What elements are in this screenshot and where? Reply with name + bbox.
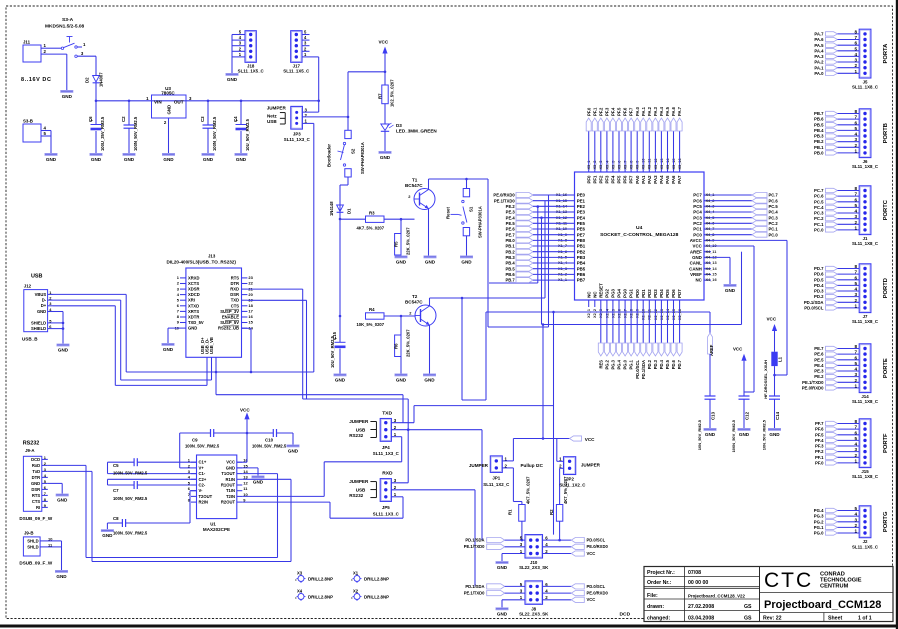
svg-text:PF5: PF5 [617, 175, 622, 184]
svg-text:Netz: Netz [267, 113, 277, 118]
svg-text:PC3: PC3 [693, 215, 702, 220]
svg-text:PD.4: PD.4 [659, 359, 664, 369]
svg-text:7805C: 7805C [161, 91, 175, 96]
svg-text:C1+: C1+ [199, 460, 207, 465]
svg-text:JP5: JP5 [382, 505, 390, 510]
svg-text:L1: L1 [778, 356, 783, 362]
svg-text:PA.5: PA.5 [814, 43, 824, 48]
svg-text:X2: X2 [353, 588, 359, 593]
svg-text:GND: GND [188, 326, 197, 331]
svg-text:PF.7: PF.7 [815, 421, 824, 426]
svg-text:NC: NC [592, 291, 597, 298]
svg-text:XTXD: XTXD [188, 303, 199, 308]
svg-text:T1OUT: T1OUT [221, 471, 235, 476]
svg-text:1N4007: 1N4007 [99, 72, 104, 87]
svg-text:ENABLE: ENABLE [222, 315, 239, 320]
svg-text:C6: C6 [88, 116, 93, 122]
svg-text:PG.3: PG.3 [814, 514, 824, 519]
svg-text:PD.2: PD.2 [647, 359, 652, 369]
svg-text:AVCC: AVCC [690, 238, 703, 243]
svg-text:VIN: VIN [154, 99, 162, 104]
svg-text:PC.2: PC.2 [814, 216, 824, 221]
svg-text:CANH: CANH [689, 266, 702, 271]
svg-text:USB: USB [356, 488, 366, 493]
svg-text:100N_50V_RM2.5: 100N_50V_RM2.5 [731, 419, 736, 452]
svg-text:100N_50V_RM2.5: 100N_50V_RM2.5 [252, 444, 287, 449]
svg-text:R4: R4 [369, 307, 375, 312]
svg-text:PD6: PD6 [671, 289, 676, 298]
svg-text:PORTE: PORTE [883, 358, 889, 378]
svg-text:PA7: PA7 [677, 175, 682, 184]
svg-text:PF2: PF2 [598, 175, 603, 184]
svg-text:X2_2: X2_2 [593, 309, 597, 318]
svg-text:PC.4: PC.4 [814, 205, 824, 210]
svg-text:Projectboard_CCM128: Projectboard_CCM128 [764, 599, 881, 611]
svg-text:PE.2: PE.2 [506, 204, 516, 209]
svg-text:PB5: PB5 [577, 266, 586, 271]
svg-text:PD0: PD0 [635, 289, 640, 298]
svg-text:Sheet: Sheet [828, 616, 842, 622]
svg-text:JUMPER: JUMPER [267, 106, 287, 111]
svg-text:PG.2: PG.2 [814, 519, 824, 524]
svg-text:PB7: PB7 [577, 278, 586, 283]
svg-text:PA2: PA2 [647, 175, 652, 184]
svg-text:C2-: C2- [199, 483, 206, 488]
svg-text:R7: R7 [378, 93, 383, 99]
svg-text:S1: S1 [469, 206, 474, 212]
svg-text:PE.6: PE.6 [814, 352, 824, 357]
svg-text:SHLD: SHLD [27, 544, 38, 549]
svg-text:PF1: PF1 [592, 175, 597, 184]
svg-text:PB.3: PB.3 [814, 134, 824, 139]
svg-text:PC.0: PC.0 [769, 232, 779, 237]
svg-text:PE5: PE5 [577, 221, 586, 226]
svg-text:RESET: RESET [598, 283, 603, 298]
svg-text:100N_50V_RM2.5: 100N_50V_RM2.5 [113, 471, 148, 476]
svg-text:D-: D- [42, 298, 47, 303]
svg-text:4K7_5%_0207: 4K7_5%_0207 [525, 476, 530, 504]
svg-text:CANL: CANL [690, 261, 702, 266]
svg-text:GND: GND [163, 157, 174, 162]
svg-text:GND: GND [288, 449, 299, 454]
svg-text:PB2: PB2 [577, 249, 586, 254]
svg-text:XDSR: XDSR [188, 287, 200, 292]
svg-text:D2: D2 [85, 77, 90, 83]
svg-text:PE.7: PE.7 [506, 232, 516, 237]
svg-text:100N_50V_RM2.5: 100N_50V_RM2.5 [113, 531, 148, 536]
svg-text:PC.1: PC.1 [769, 227, 779, 232]
svg-text:VBUS: VBUS [35, 292, 47, 297]
svg-text:GND: GND [124, 157, 135, 162]
svg-text:USB: USB [267, 119, 277, 124]
svg-text:NC: NC [586, 291, 591, 298]
svg-text:PD.2: PD.2 [814, 294, 824, 299]
svg-text:PG.4: PG.4 [617, 359, 622, 369]
svg-text:PORTB: PORTB [883, 123, 889, 143]
svg-text:VCC: VCC [587, 597, 596, 602]
svg-text:CTS: CTS [32, 499, 41, 504]
svg-text:PD7: PD7 [677, 289, 682, 298]
svg-text:GND: GND [91, 157, 102, 162]
svg-text:PE.3: PE.3 [506, 210, 516, 215]
svg-text:PG2: PG2 [605, 288, 610, 297]
svg-text:PC.4: PC.4 [769, 210, 779, 215]
svg-text:VCC: VCC [379, 40, 389, 45]
svg-text:DCD: DCD [31, 457, 40, 462]
svg-text:X4_11: X4_11 [706, 250, 718, 254]
svg-text:MKDSN1.5/2-5.08: MKDSN1.5/2-5.08 [45, 24, 85, 30]
svg-text:PA.7: PA.7 [677, 106, 682, 116]
svg-text:OUT: OUT [174, 99, 184, 104]
svg-text:J2: J2 [863, 539, 868, 544]
svg-text:PE1: PE1 [577, 198, 586, 203]
svg-text:SOCKET_C-CONTROL_MEGA128: SOCKET_C-CONTROL_MEGA128 [600, 232, 679, 238]
svg-text:X2_1: X2_1 [587, 308, 591, 318]
svg-text:PA5: PA5 [665, 175, 670, 184]
svg-text:D3: D3 [396, 123, 402, 128]
svg-text:PA.4: PA.4 [814, 48, 824, 53]
svg-text:PD.0/SCL: PD.0/SCL [587, 584, 606, 589]
svg-text:JUMPER: JUMPER [469, 463, 489, 468]
svg-text:100U_35V_RM3.5: 100U_35V_RM3.5 [100, 116, 105, 151]
svg-text:HF-DROSSEL_XXUH: HF-DROSSEL_XXUH [763, 360, 768, 399]
svg-text:GND: GND [102, 533, 113, 538]
svg-text:TxD: TxD [32, 469, 40, 474]
svg-text:Reset: Reset [446, 207, 451, 219]
svg-text:AREF: AREF [690, 249, 702, 254]
svg-text:XCTS: XCTS [188, 281, 199, 286]
svg-text:C14: C14 [775, 411, 780, 420]
svg-text:JP3: JP3 [293, 132, 301, 137]
svg-text:SL11_1X3_C: SL11_1X3_C [373, 451, 400, 456]
svg-text:PF.3: PF.3 [605, 107, 610, 116]
svg-text:PF.6: PF.6 [623, 107, 628, 116]
svg-text:GND: GND [37, 309, 46, 314]
svg-text:GND: GND [62, 94, 73, 99]
svg-text:10K_5%_0207: 10K_5%_0207 [357, 322, 385, 327]
svg-text:DRILL2.8NP: DRILL2.8NP [364, 577, 389, 582]
svg-text:PE.0/RXD0: PE.0/RXD0 [587, 544, 609, 549]
svg-text:R2OUT: R2OUT [221, 500, 236, 505]
svg-text:T2IN: T2IN [226, 494, 235, 499]
svg-text:RS232_UB: RS232_UB [218, 326, 239, 331]
svg-text:PD.6: PD.6 [814, 272, 824, 277]
svg-text:GND: GND [497, 611, 508, 616]
svg-text:PB.7: PB.7 [505, 278, 515, 283]
svg-text:VCC: VCC [767, 317, 777, 322]
svg-text:CTC: CTC [764, 569, 813, 592]
svg-text:PG0: PG0 [623, 288, 628, 297]
svg-text:PF.7: PF.7 [629, 107, 634, 116]
svg-text:J9-B: J9-B [24, 531, 33, 536]
svg-text:X4_16: X4_16 [706, 278, 717, 282]
svg-text:C12: C12 [745, 411, 750, 420]
svg-text:DRILL2.8NP: DRILL2.8NP [308, 577, 333, 582]
svg-text:PF4: PF4 [611, 175, 616, 184]
svg-text:PD.1/SDA: PD.1/SDA [465, 584, 484, 589]
svg-text:PB.5: PB.5 [505, 266, 515, 271]
svg-text:PD3: PD3 [653, 289, 658, 298]
svg-text:PE.0/RXD0: PE.0/RXD0 [587, 591, 609, 596]
svg-text:JUMPER: JUMPER [581, 463, 601, 468]
svg-text:RS232: RS232 [349, 433, 363, 438]
svg-text:SUSP_5V: SUSP_5V [220, 320, 239, 325]
svg-text:PE.4: PE.4 [506, 215, 516, 220]
svg-text:PD.1/SDA: PD.1/SDA [804, 300, 824, 305]
svg-text:PE.4: PE.4 [814, 363, 824, 368]
svg-text:VCC: VCC [226, 460, 235, 465]
svg-text:PE.1/TXD0: PE.1/TXD0 [464, 544, 485, 549]
svg-text:100N_50V_RM2.5: 100N_50V_RM2.5 [133, 116, 138, 151]
svg-text:27.02.2008: 27.02.2008 [688, 604, 714, 610]
svg-text:Rev: 22: Rev: 22 [763, 616, 782, 622]
svg-text:PC7: PC7 [693, 193, 702, 198]
svg-text:PG.0: PG.0 [814, 531, 824, 536]
svg-text:J9-A: J9-A [25, 448, 35, 453]
svg-text:GND: GND [461, 260, 472, 265]
svg-text:PD.5: PD.5 [814, 277, 824, 282]
svg-text:4K7_5%_0207: 4K7_5%_0207 [563, 476, 568, 504]
svg-text:PF.6: PF.6 [815, 427, 824, 432]
svg-text:PE7: PE7 [577, 232, 586, 237]
svg-text:PB.1: PB.1 [814, 145, 824, 150]
svg-text:SL11_1X3_C: SL11_1X3_C [284, 137, 311, 142]
svg-text:PC.5: PC.5 [814, 199, 824, 204]
svg-text:GND: GND [56, 574, 67, 579]
svg-text:PD1: PD1 [641, 289, 646, 298]
svg-text:DTR: DTR [32, 475, 41, 480]
svg-text:PC.6: PC.6 [769, 198, 779, 203]
svg-text:PD.3: PD.3 [814, 289, 824, 294]
svg-text:DSUB_09_F_W: DSUB_09_F_W [19, 516, 52, 521]
svg-text:PORTF: PORTF [883, 433, 889, 453]
svg-text:JUMPER: JUMPER [349, 419, 369, 424]
svg-text:PA.4: PA.4 [659, 106, 664, 116]
svg-text:T2: T2 [412, 294, 418, 299]
svg-text:PC.1: PC.1 [814, 222, 824, 227]
svg-text:Projectboard_CCM128_V22: Projectboard_CCM128_V22 [688, 593, 745, 598]
svg-text:PG.3: PG.3 [611, 359, 616, 369]
svg-text:PA.6: PA.6 [671, 106, 676, 116]
svg-text:PC.5: PC.5 [769, 204, 779, 209]
svg-text:PA.3: PA.3 [653, 106, 658, 116]
svg-text:PB1: PB1 [577, 244, 586, 249]
svg-text:SW-PHAP8301A: SW-PHAP8301A [360, 142, 365, 174]
svg-text:PG.1: PG.1 [629, 359, 634, 369]
svg-text:8..16V DC: 8..16V DC [21, 77, 52, 83]
svg-text:JUMPER: JUMPER [349, 479, 369, 484]
svg-text:PC6: PC6 [693, 198, 702, 203]
svg-text:R1IN: R1IN [226, 477, 235, 482]
svg-text:C10: C10 [265, 438, 274, 443]
svg-text:PE.1/TXD0: PE.1/TXD0 [494, 198, 515, 203]
svg-text:X4_15: X4_15 [706, 273, 718, 277]
svg-text:VCC: VCC [693, 244, 703, 249]
svg-text:PB.6: PB.6 [505, 272, 515, 277]
svg-text:PD.1/SDA: PD.1/SDA [641, 360, 646, 379]
svg-text:J11: J11 [23, 40, 31, 45]
svg-text:CENTRUM: CENTRUM [820, 584, 849, 590]
svg-text:PE.6: PE.6 [506, 227, 516, 232]
svg-text:PE6: PE6 [577, 227, 586, 232]
svg-text:PD.0/SCL: PD.0/SCL [587, 538, 606, 543]
svg-text:PB.4: PB.4 [505, 261, 515, 266]
svg-text:PORTG: PORTG [883, 511, 889, 532]
svg-text:PG1: PG1 [629, 288, 634, 297]
svg-text:V+: V+ [199, 465, 205, 470]
svg-text:RXD: RXD [230, 287, 239, 292]
svg-text:07/08: 07/08 [688, 570, 701, 576]
svg-text:PA.2: PA.2 [647, 106, 652, 116]
svg-text:03.04.2008: 03.04.2008 [688, 616, 714, 622]
svg-text:R1: R1 [507, 509, 512, 515]
svg-text:PE.2: PE.2 [814, 374, 824, 379]
svg-text:SL11_1X8_C: SL11_1X8_C [852, 241, 879, 246]
svg-text:R3: R3 [369, 210, 375, 215]
svg-text:PE.0/RXD0: PE.0/RXD0 [802, 386, 824, 391]
svg-text:R1OUT: R1OUT [221, 483, 236, 488]
svg-text:PB3: PB3 [577, 255, 586, 260]
svg-text:C5: C5 [113, 463, 119, 468]
svg-text:PD.4: PD.4 [814, 283, 824, 288]
svg-text:J13: J13 [208, 254, 216, 259]
svg-text:SHIELD: SHIELD [31, 326, 46, 331]
svg-text:PB.6: PB.6 [814, 117, 824, 122]
svg-text:PF.0: PF.0 [815, 461, 824, 466]
svg-text:PA.1: PA.1 [641, 106, 646, 116]
svg-text:GND: GND [769, 432, 780, 437]
svg-text:PD.7: PD.7 [814, 266, 824, 271]
svg-text:PF.4: PF.4 [611, 107, 616, 116]
svg-text:X1: X1 [353, 570, 359, 575]
svg-text:TXD: TXD [382, 411, 392, 417]
svg-text:SUSP_3V: SUSP_3V [220, 309, 239, 314]
svg-text:PB4: PB4 [577, 261, 586, 266]
svg-text:PA4: PA4 [659, 175, 664, 184]
svg-text:PF6: PF6 [623, 175, 628, 184]
svg-text:GND: GND [31, 481, 40, 486]
svg-text:SL11_1X3_C: SL11_1X3_C [373, 511, 400, 516]
svg-text:C7: C7 [113, 488, 119, 493]
svg-text:00 00 00: 00 00 00 [688, 580, 708, 586]
svg-text:PE.0/RXD0: PE.0/RXD0 [493, 193, 515, 198]
svg-text:RES: RES [598, 360, 603, 369]
svg-text:RTS: RTS [32, 493, 41, 498]
svg-text:PE.5: PE.5 [814, 357, 824, 362]
svg-text:PD2: PD2 [647, 289, 652, 298]
svg-text:PG.4: PG.4 [814, 508, 824, 513]
svg-text:BC547C: BC547C [405, 183, 423, 188]
svg-text:PF.5: PF.5 [617, 107, 622, 116]
svg-text:PG4: PG4 [617, 288, 622, 297]
svg-text:PD5: PD5 [665, 289, 670, 298]
svg-text:PA.5: PA.5 [665, 106, 670, 116]
svg-text:PC.7: PC.7 [814, 188, 824, 193]
svg-text:PA3: PA3 [653, 175, 658, 184]
svg-text:PB.7: PB.7 [814, 111, 824, 116]
svg-text:GND: GND [226, 465, 235, 470]
svg-text:10U_50V_RM2.5: 10U_50V_RM2.5 [330, 335, 335, 368]
svg-text:Order Nr.:: Order Nr.: [647, 580, 672, 586]
svg-text:PA.0: PA.0 [814, 71, 824, 76]
svg-text:C4: C4 [233, 116, 238, 122]
svg-text:PB0: PB0 [577, 238, 586, 243]
svg-text:GND: GND [380, 155, 391, 160]
svg-text:PF.1: PF.1 [815, 455, 824, 460]
svg-text:PF3: PF3 [605, 175, 610, 184]
svg-text:S3-A: S3-A [62, 17, 74, 23]
svg-text:C2+: C2+ [199, 477, 207, 482]
svg-text:USB_VB: USB_VB [209, 337, 214, 354]
svg-text:SL22_2X3_SK: SL22_2X3_SK [519, 565, 549, 570]
svg-text:GND: GND [163, 347, 174, 352]
svg-text:PD.3: PD.3 [653, 359, 658, 369]
svg-text:USB: USB [31, 274, 43, 280]
svg-text:GND: GND [396, 260, 407, 265]
svg-text:PB.5: PB.5 [814, 122, 824, 127]
svg-text:GND: GND [227, 77, 238, 82]
svg-text:RI: RI [36, 505, 40, 510]
svg-text:PC5: PC5 [693, 204, 702, 209]
svg-text:drawn:: drawn: [647, 604, 664, 610]
svg-text:X3: X3 [297, 570, 303, 575]
svg-text:MAX202CPE: MAX202CPE [203, 527, 230, 532]
svg-text:GND: GND [424, 378, 435, 383]
svg-text:PF.2: PF.2 [815, 449, 824, 454]
svg-text:PORTA: PORTA [883, 43, 889, 64]
svg-text:SHLD: SHLD [27, 538, 38, 543]
svg-text:PF7: PF7 [629, 175, 634, 184]
svg-text:PB.0: PB.0 [505, 238, 515, 243]
svg-text:PB.1: PB.1 [505, 244, 515, 249]
svg-text:RS232: RS232 [23, 441, 40, 447]
svg-text:GND: GND [236, 157, 247, 162]
svg-text:SL11_1X5_C: SL11_1X5_C [852, 544, 879, 549]
svg-text:X4: X4 [297, 588, 303, 593]
svg-text:PC.3: PC.3 [769, 215, 779, 220]
svg-text:PORTC: PORTC [883, 200, 889, 220]
svg-text:VCC: VCC [733, 347, 743, 352]
svg-text:XDTR: XDTR [188, 315, 199, 320]
svg-text:R2: R2 [549, 509, 554, 515]
svg-text:PC.0: PC.0 [814, 228, 824, 233]
svg-text:DSR: DSR [31, 487, 40, 492]
svg-text:PF.5: PF.5 [815, 432, 824, 437]
svg-text:VCC: VCC [587, 551, 596, 556]
svg-text:PA.0: PA.0 [635, 106, 640, 116]
svg-text:PF.2: PF.2 [598, 107, 603, 116]
svg-text:PD.5: PD.5 [665, 359, 670, 369]
svg-text:SL11_1X8_C: SL11_1X8_C [852, 399, 879, 404]
svg-text:File:: File: [647, 593, 658, 599]
svg-text:XRTS: XRTS [188, 309, 199, 314]
svg-text:BC547C: BC547C [405, 300, 423, 305]
svg-text:22K_5%_0207: 22K_5%_0207 [406, 329, 411, 357]
svg-text:X4_13: X4_13 [706, 261, 717, 265]
svg-text:DCD: DCD [620, 611, 631, 617]
svg-text:USB: USB [356, 428, 366, 433]
svg-text:PG3: PG3 [611, 288, 616, 297]
svg-text:TXD: TXD [231, 298, 239, 303]
svg-text:PD.7: PD.7 [677, 359, 682, 369]
svg-text:1K2_5%_0207: 1K2_5%_0207 [390, 79, 395, 107]
svg-text:PE.7: PE.7 [814, 346, 824, 351]
svg-text:PG.0: PG.0 [623, 359, 628, 369]
svg-text:1N4148: 1N4148 [329, 201, 334, 216]
svg-text:T1IN: T1IN [226, 488, 235, 493]
svg-text:SL11_1X5_C: SL11_1X5_C [238, 69, 265, 74]
svg-text:Pullup I2C: Pullup I2C [521, 463, 544, 468]
